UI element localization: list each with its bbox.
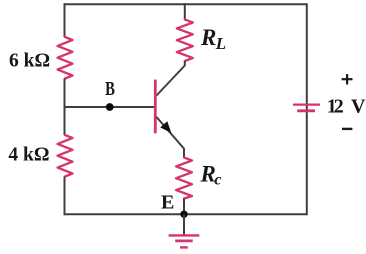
battery V1 positive plate bbox=[293, 103, 320, 105]
ground bbox=[169, 235, 200, 247]
svg-text:R: R bbox=[200, 161, 216, 186]
svg-text:R: R bbox=[200, 25, 216, 50]
resistor RL bbox=[177, 20, 193, 62]
resistor R1 6 kOhm bbox=[58, 37, 73, 79]
wire: left branch upper segment bbox=[64, 3, 66, 37]
wire: collector lead of Q1 bbox=[157, 61, 185, 96]
wire: base lead bbox=[65, 106, 155, 108]
wire: top stub to RL bbox=[184, 3, 186, 19]
resistor R2 4 kOhm bbox=[58, 135, 73, 177]
svg-text:4 kΩ: 4 kΩ bbox=[8, 145, 49, 166]
wire: bottom rail bbox=[65, 213, 307, 215]
resistor Rc bbox=[176, 158, 192, 199]
battery plus sign bbox=[342, 74, 353, 84]
wire: Rc to bottom rail bbox=[183, 199, 185, 215]
svg-text:B: B bbox=[105, 78, 115, 100]
svg-text:6 kΩ: 6 kΩ bbox=[9, 51, 50, 72]
transistor Q1 emitter arrow bbox=[160, 121, 171, 133]
wire: ground stem bbox=[183, 214, 185, 234]
wire: left branch middle segment bbox=[64, 79, 66, 136]
wire: emitter lead of Q1 bbox=[157, 117, 185, 158]
wire: left branch lower segment bbox=[64, 177, 66, 216]
svg-text:2: 2 bbox=[334, 96, 344, 118]
svg-text:c: c bbox=[214, 172, 221, 189]
svg-text:L: L bbox=[215, 34, 226, 53]
transistor Q1 base bar bbox=[154, 80, 157, 134]
svg-text:V: V bbox=[351, 96, 366, 118]
wire: right branch (battery leads) bbox=[306, 3, 308, 215]
svg-text:E: E bbox=[161, 192, 174, 214]
battery V1 negative plate bbox=[297, 109, 315, 112]
node B dot bbox=[106, 103, 114, 111]
battery minus sign bbox=[342, 128, 352, 130]
node E dot bbox=[180, 211, 187, 218]
wire: top rail bbox=[65, 3, 307, 5]
